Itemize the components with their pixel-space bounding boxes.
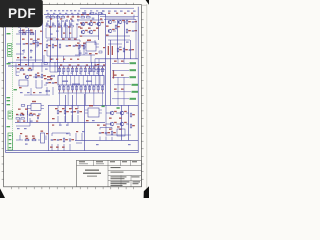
resistor R25 <box>130 113 135 117</box>
net label left b <box>7 63 11 64</box>
bottom extra wires <box>20 133 82 143</box>
gnd G1 sym <box>23 56 26 58</box>
center bottom mesh <box>60 122 68 124</box>
wire net top rail <box>44 14 106 16</box>
left extra labels <box>17 27 46 59</box>
IC U5 <box>85 105 102 117</box>
wire left mid <box>16 62 53 95</box>
resistor R24 <box>64 110 69 114</box>
relay K1 <box>41 131 45 144</box>
capacitor C10 <box>129 49 134 51</box>
net label R1 <box>130 62 137 64</box>
resistor RT3 <box>99 12 102 14</box>
connector J2 green <box>8 111 12 119</box>
marks left low extra2 <box>17 121 38 122</box>
wire left cluster <box>16 34 31 54</box>
transistor Q6 <box>25 75 32 79</box>
resistor R10 <box>30 32 34 35</box>
capacitor C13 <box>51 139 56 141</box>
capacitor C18 <box>132 30 137 32</box>
label marks left <box>22 30 40 52</box>
wire vertical net o <box>130 40 132 59</box>
PDF badge <box>0 0 43 27</box>
wire net bottom rail A <box>75 139 138 141</box>
transistor Q9 <box>110 122 117 126</box>
resistor R12 <box>46 44 51 48</box>
diode D2 <box>79 45 84 47</box>
wire bus net V2 <box>8 65 105 67</box>
wire bottom right <box>100 128 112 141</box>
IC U1 pin labels <box>60 64 105 73</box>
IC U1 main <box>47 76 104 86</box>
resistor R17 <box>35 74 40 78</box>
mid fill parts <box>78 45 85 49</box>
IC U6 <box>117 126 125 136</box>
wire vertical net s <box>121 105 123 140</box>
label row top 2 <box>46 24 90 28</box>
diode D3 <box>77 111 82 113</box>
u1 value labels <box>62 81 92 85</box>
net label low right b <box>117 107 120 109</box>
capacitor C17 <box>132 21 137 23</box>
diode D4 <box>69 139 74 141</box>
left extra wires <box>16 33 44 63</box>
svg-text:PDF: PDF <box>8 6 36 21</box>
wires top right horiz <box>100 15 138 59</box>
resistor R14 <box>59 44 61 48</box>
resistor R5 <box>81 14 85 18</box>
resistor R15 <box>20 68 24 71</box>
label marks q cluster <box>80 26 109 37</box>
wire IC pins to rail <box>60 93 103 105</box>
resistor R32 <box>21 105 25 107</box>
wire vertical net k <box>72 95 74 122</box>
mid left mesh <box>16 56 58 95</box>
wire right low <box>106 105 131 135</box>
wire vertical net j <box>65 95 67 122</box>
net label R3 <box>130 76 137 78</box>
wire vertical net l <box>110 40 112 105</box>
IC U1 pin dots top <box>59 67 103 68</box>
mid left small parts <box>44 63 54 92</box>
connector J3 green <box>8 133 12 150</box>
corner top-right <box>146 0 149 5</box>
transistor Q13 <box>118 20 125 24</box>
transistor Q1 <box>81 22 88 26</box>
labels left low <box>17 109 28 130</box>
wire stubs top <box>47 15 78 26</box>
resistor R20 <box>123 48 128 52</box>
wire vertical net f <box>28 28 30 66</box>
labels center low <box>55 108 78 109</box>
transistor Q11 <box>108 20 115 24</box>
capacitor C8 <box>46 82 51 84</box>
transistor Q5 <box>89 30 96 34</box>
transistor Q12 <box>108 29 115 33</box>
wire vertical net e <box>20 28 22 66</box>
vertical red strip a <box>108 46 109 55</box>
wire center cluster <box>47 40 80 62</box>
capacitor C12 <box>71 111 76 113</box>
refdes row above bus <box>50 59 79 60</box>
right mid extra wires <box>95 59 124 106</box>
mid fill labels <box>77 43 98 55</box>
left low extra parts <box>16 118 24 120</box>
capacitor C9 <box>52 82 57 84</box>
capacitor C15 <box>99 132 104 134</box>
resistor R18 <box>41 74 46 78</box>
transistor Q7 <box>110 111 117 115</box>
wire IC bottom bus <box>58 92 104 94</box>
right mid marks <box>97 42 129 66</box>
border frame <box>2 3 144 189</box>
capacitor C2 <box>72 16 75 22</box>
wire net mid rail <box>48 104 138 106</box>
gnd G2 sym <box>30 56 33 58</box>
page edge top-right line <box>141 4 147 6</box>
mid left marks <box>17 59 54 94</box>
net label left d <box>7 126 11 127</box>
net label left c <box>7 97 11 101</box>
transistor Q2 <box>89 22 96 26</box>
resistor R23 <box>57 110 62 114</box>
transistor Q3 <box>97 22 104 26</box>
wire right rail <box>95 58 138 60</box>
net label R5 <box>132 91 139 93</box>
capacitor C7 <box>73 45 78 47</box>
wire vertical net p <box>98 15 100 40</box>
wire mid fill <box>75 40 95 62</box>
capacitor C14 <box>57 139 62 141</box>
right mid mesh <box>95 40 130 85</box>
resistor R21 <box>20 113 24 116</box>
schematic frame <box>6 7 139 153</box>
label scatter top band <box>47 10 104 21</box>
resistor R19 <box>117 48 122 52</box>
corner bottom-right <box>144 186 149 198</box>
labels bottom <box>25 136 65 148</box>
wire bus net V1 <box>8 61 105 63</box>
diode D1 <box>77 16 80 21</box>
vertical red strip b <box>112 46 113 55</box>
label scatter top band red <box>50 13 133 24</box>
capacitor C6 <box>66 45 71 47</box>
transistor Q4 <box>81 30 88 34</box>
IC U1 pin dots bottom <box>59 91 103 92</box>
left low extra labels <box>7 104 41 115</box>
corner bottom-left <box>0 188 5 198</box>
vertical red strip c <box>113 71 114 79</box>
net label low right a <box>102 106 105 108</box>
page edge shadow right <box>146 4 148 190</box>
label row top <box>46 10 76 11</box>
resistor R9 <box>22 32 26 35</box>
labels right low <box>109 118 122 130</box>
wire vertical net h <box>84 94 86 151</box>
resistor R30 <box>111 131 116 135</box>
refdes row center <box>50 39 77 40</box>
resistor R16 <box>28 68 32 71</box>
wire net lower rail <box>15 121 105 123</box>
resistor R29 <box>63 138 68 142</box>
crystal Y1 <box>99 51 102 53</box>
resistor R11 <box>37 42 42 46</box>
resistor R27 <box>25 138 29 141</box>
capacitor C1 <box>67 16 70 22</box>
resistor R2 <box>51 16 55 18</box>
net label R2 <box>130 69 137 71</box>
wire vertical net b <box>57 15 59 72</box>
wire q cluster <box>79 18 134 36</box>
wire vertical net a <box>50 15 52 62</box>
resistor R8 <box>126 20 131 24</box>
wire bottom left <box>16 133 70 151</box>
title block <box>77 160 142 186</box>
wire vertical net r <box>27 105 29 122</box>
IC U1 pin components top <box>58 68 103 72</box>
connector J1 green <box>8 44 12 57</box>
wire vertical net m <box>117 20 119 59</box>
capacitor C3 sym <box>92 18 95 19</box>
resistor R26 <box>130 124 135 128</box>
resistor R22 <box>29 113 33 116</box>
bottom extra labels <box>20 131 85 134</box>
capacitor C5 <box>30 43 35 45</box>
resistor R3 <box>56 16 60 18</box>
center low extra <box>52 118 95 126</box>
capacitor C11 <box>37 115 40 119</box>
wire vertical short group <box>62 20 70 38</box>
net class boundary (green dashed) <box>12 27 14 150</box>
IC U3 <box>19 80 28 88</box>
wires top mid verticals <box>46 24 77 38</box>
resistor R1 <box>46 16 50 18</box>
net label R4 <box>132 84 139 86</box>
wire vertical net n <box>124 20 126 59</box>
wire left low <box>16 111 36 126</box>
wire vertical net d <box>42 15 44 62</box>
wire vertical net i <box>48 105 50 150</box>
labels right col <box>114 61 124 90</box>
net label R6 <box>130 98 137 100</box>
resistor R28 <box>32 138 36 141</box>
label row top right <box>102 11 136 12</box>
wire vertical net t <box>128 105 130 140</box>
wire net bottom rail B <box>6 150 138 152</box>
resistor R13 <box>52 44 57 48</box>
wire center low <box>58 105 78 122</box>
wire vertical net g <box>35 30 37 62</box>
net label left a <box>7 33 11 34</box>
labels bottom right <box>96 125 131 146</box>
resistor group RT <box>46 25 73 27</box>
resistor RT1 <box>83 12 86 14</box>
wire rail top right <box>80 7 134 9</box>
transistor Q10 <box>120 122 127 126</box>
IC U4 <box>27 101 44 111</box>
IC U1 pins <box>60 66 103 93</box>
labels left mid <box>18 64 53 93</box>
wire vertical net c <box>105 15 107 106</box>
wire vertical net q <box>91 62 93 72</box>
resistor R6 <box>87 14 91 18</box>
marks top mid <box>50 31 71 35</box>
IC U2 small <box>83 40 99 52</box>
wire right labels <box>112 63 131 99</box>
capacitor C4 <box>23 43 28 45</box>
net label mid <box>14 89 17 90</box>
resistor R4 <box>61 16 65 18</box>
transistor Q8 <box>120 111 127 115</box>
left extra parts <box>19 31 37 43</box>
IC U1 pin components bottom <box>58 86 103 90</box>
resistor R7 <box>115 25 120 29</box>
resistor R31 <box>126 29 131 33</box>
capacitor C16 <box>105 132 110 134</box>
resistor RT2 <box>91 12 94 14</box>
